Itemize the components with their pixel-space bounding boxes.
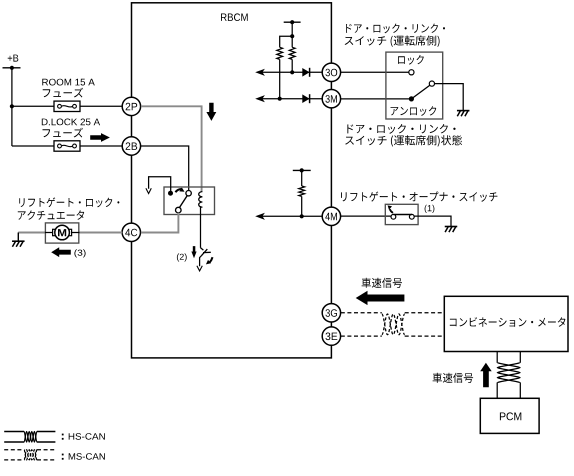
motor M circle <box>55 225 70 240</box>
wire coil to switch <box>200 206 202 247</box>
wire resistor left to 3M row <box>279 59 281 98</box>
node +B <box>3 67 21 69</box>
wire 3O row <box>258 71 322 73</box>
label D.LOCK 25 A <box>42 119 100 126</box>
+B label <box>8 55 19 62</box>
twisted pair HS-CAN to PCM <box>497 363 520 383</box>
wire lever to ground <box>435 84 464 111</box>
motor box <box>45 223 78 243</box>
ground motor <box>12 241 24 247</box>
wire resistor right to 3O row <box>291 59 293 72</box>
open arrow down relay exit <box>146 188 151 193</box>
RBCM label <box>221 13 248 21</box>
wire 3M to unlock contact <box>341 98 409 100</box>
wire branch right <box>291 36 293 47</box>
fuse ROOM 15A <box>54 101 80 111</box>
wire twist to PCM right <box>519 383 521 399</box>
junction dot ROOM feed <box>10 104 14 108</box>
ground opener switch <box>445 227 458 233</box>
flow arrow left (3) <box>51 247 71 257</box>
label door lock link switch bottom line2 <box>345 135 462 147</box>
label (2) <box>177 253 187 261</box>
wire bar to resistor <box>301 170 303 186</box>
relay contact circle bottom <box>176 207 182 213</box>
connector 4C <box>122 223 140 241</box>
pullup bar 4M <box>293 169 311 171</box>
resistor left <box>277 47 283 59</box>
relay lever <box>179 196 187 208</box>
junction dot 3M row <box>278 97 282 101</box>
wire 4M row <box>258 215 322 217</box>
opener switch box <box>385 204 418 224</box>
wire branch left <box>280 36 293 47</box>
diode 3O <box>302 68 309 77</box>
connector 2B <box>122 137 140 155</box>
lock contact circle <box>409 70 414 75</box>
relay NC contact dot <box>168 191 173 196</box>
label lock (katakana) <box>398 55 424 65</box>
resistor right <box>289 47 295 59</box>
label unlock (katakana) <box>391 106 437 116</box>
wire 4C to motor to ground <box>18 232 122 234</box>
label (1) <box>425 205 435 213</box>
relay contact circle top <box>186 191 191 196</box>
RBCM box <box>132 3 332 358</box>
connector 3M <box>322 90 340 108</box>
label ROOM 15 A <box>42 79 95 86</box>
twisted pair MS-CAN <box>382 314 405 335</box>
legend MS-CAN label <box>62 454 64 456</box>
label door lock link switch top line2 <box>345 36 440 47</box>
label (3) <box>74 249 85 257</box>
connector 3O <box>322 63 340 81</box>
wire 3O to lock contact <box>341 71 409 73</box>
arrow left 3O row <box>255 69 265 76</box>
wire twist to PCM left <box>496 383 498 399</box>
switch lever <box>411 85 430 99</box>
legend HS-CAN symbol <box>4 431 24 433</box>
junction dot <box>290 34 294 38</box>
wire motor ground stub <box>17 233 19 242</box>
lever pivot circle <box>429 81 434 86</box>
arrow left 4M row <box>255 213 265 220</box>
legend HS-CAN label <box>62 434 64 436</box>
label fuse (katakana) <box>43 88 83 98</box>
label door lock link switch top line1 <box>346 24 445 34</box>
relay box <box>164 187 215 215</box>
label lift gate lock actuator line2 <box>18 210 84 220</box>
wire 2B to relay contact <box>141 146 189 191</box>
switch symbol (2) <box>197 248 213 271</box>
unlock contact dot <box>409 96 414 101</box>
label vehicle speed signal bottom <box>433 373 474 383</box>
label lift gate lock actuator line1 <box>19 197 119 207</box>
opener switch flick arrow <box>390 209 393 213</box>
label vehicle speed signal left <box>362 278 402 288</box>
motor brushes <box>53 229 56 235</box>
wire 3G dashed right <box>405 312 445 314</box>
connector 2P <box>122 97 140 115</box>
junction dot 3O row <box>290 70 294 74</box>
opener switch contacts <box>391 214 396 219</box>
relay coil <box>199 192 203 208</box>
flow arrow down (2) <box>191 246 196 258</box>
relay left exit wire <box>149 177 171 191</box>
wire 3G dashed <box>341 312 382 314</box>
wire 4M to opener switch <box>341 215 392 217</box>
relay flick arrow <box>175 189 181 192</box>
wire relay to 4C <box>141 213 179 233</box>
wire ROOM fuse row <box>12 105 122 107</box>
label door lock link switch bottom line1 <box>347 124 455 134</box>
wire meter to PCM left <box>496 352 498 363</box>
connector 3E <box>322 327 340 345</box>
ground door lock switch <box>457 111 470 117</box>
door lock link switch box <box>386 52 443 119</box>
connector 4M <box>322 207 340 225</box>
diode 3M <box>302 94 309 103</box>
label fuse2 (katakana) <box>43 128 84 138</box>
connector 3G <box>322 304 340 322</box>
flow arrow up speed signal <box>480 363 492 387</box>
arrow left 3M row <box>255 95 265 102</box>
opener switch blade <box>393 214 411 216</box>
wire +B vertical <box>11 68 13 146</box>
resistor 4M <box>299 186 305 196</box>
flow arrow left speed signal <box>356 291 405 305</box>
label lift gate opener switch <box>341 192 497 202</box>
combination meter box <box>444 296 568 351</box>
flow arrow down at 2P <box>206 103 216 121</box>
wire D.LOCK fuse row <box>12 145 122 147</box>
wire opener switch to ground <box>414 216 451 226</box>
wire 3M row <box>258 98 322 100</box>
wire resistor to 4M row <box>301 196 303 216</box>
wire 2P to relay coil <box>141 106 202 191</box>
fuse D.LOCK 25A <box>54 141 80 151</box>
legend MS-CAN symbol <box>4 449 24 451</box>
flow arrow right at 2B <box>90 133 110 142</box>
label combination meter <box>450 317 566 327</box>
PCM box <box>480 398 539 433</box>
junction dot 4M row <box>300 214 304 218</box>
label PCM <box>500 412 521 420</box>
wire 3E dashed <box>341 335 382 337</box>
wire inside motor box <box>45 232 80 234</box>
wire bar down <box>291 22 293 36</box>
pullup bar 3O/3M <box>284 21 301 23</box>
wire meter to PCM right <box>519 352 521 363</box>
wire 3E dashed right <box>405 335 445 337</box>
